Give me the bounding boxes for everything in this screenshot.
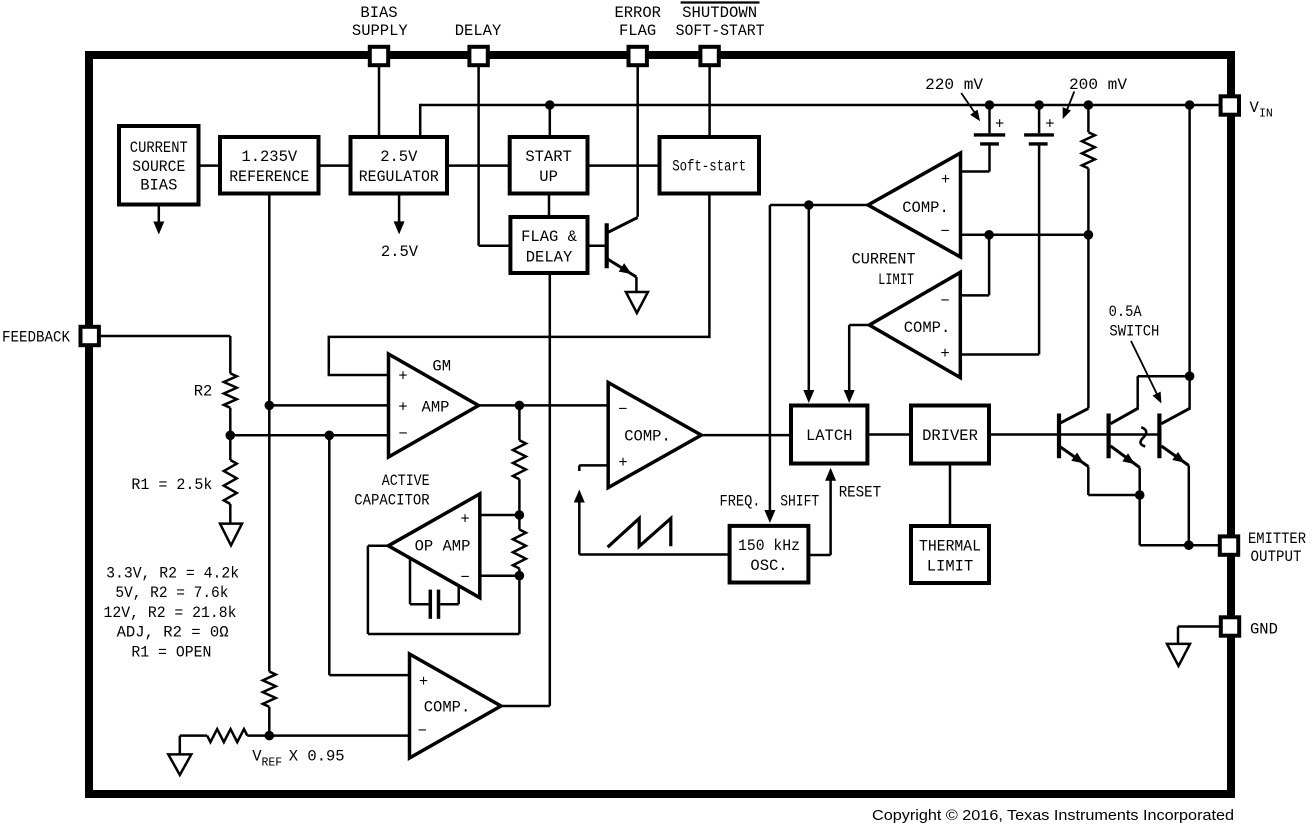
svg-text:DRIVER: DRIVER: [922, 427, 978, 445]
svg-text:SUPPLY: SUPPLY: [352, 22, 409, 40]
svg-text:−: −: [398, 425, 407, 443]
svg-text:FREQ.: FREQ.: [720, 493, 761, 511]
svg-text:COMP.: COMP.: [424, 699, 471, 717]
svg-text:R1 = 2.5k: R1 = 2.5k: [131, 476, 212, 494]
svg-text:FLAG &: FLAG &: [521, 228, 577, 246]
svg-text:−: −: [940, 292, 949, 310]
svg-text:CURRENT: CURRENT: [130, 139, 188, 157]
svg-text:RESET: RESET: [839, 484, 882, 502]
svg-text:OSC.: OSC.: [750, 557, 787, 575]
svg-text:LATCH: LATCH: [806, 427, 853, 445]
svg-text:200 mV: 200 mV: [1069, 76, 1128, 94]
svg-text:0.5A: 0.5A: [1109, 303, 1143, 321]
svg-text:ADJ, R2 = 0Ω: ADJ, R2 = 0Ω: [117, 624, 229, 642]
svg-text:COMP.: COMP.: [902, 199, 949, 217]
svg-text:DELAY: DELAY: [526, 249, 573, 267]
svg-text:220 mV: 220 mV: [925, 76, 984, 94]
svg-text:+: +: [398, 368, 407, 386]
svg-text:1.235V: 1.235V: [241, 148, 298, 166]
svg-text:+: +: [460, 511, 469, 529]
svg-text:COMP.: COMP.: [904, 319, 951, 337]
svg-text:150 kHz: 150 kHz: [738, 537, 800, 555]
svg-text:Soft-start: Soft-start: [672, 158, 746, 176]
svg-text:+: +: [618, 454, 627, 472]
svg-text:GND: GND: [1250, 621, 1278, 639]
svg-text:+: +: [398, 398, 407, 416]
svg-text:UP: UP: [539, 168, 558, 186]
svg-text:ACTIVE: ACTIVE: [382, 472, 430, 490]
svg-text:THERMAL: THERMAL: [919, 538, 981, 556]
svg-text:Copyright © 2016, Texas Instru: Copyright © 2016, Texas Instruments Inco…: [872, 807, 1234, 824]
svg-text:+: +: [1045, 115, 1054, 133]
svg-text:X 0.95: X 0.95: [289, 748, 345, 766]
svg-text:SWITCH: SWITCH: [1109, 323, 1159, 341]
svg-text:+: +: [941, 171, 950, 189]
svg-text:2.5V: 2.5V: [381, 243, 419, 261]
svg-text:−: −: [940, 222, 949, 240]
svg-text:REFERENCE: REFERENCE: [229, 168, 309, 186]
svg-text:LIMIT: LIMIT: [878, 271, 914, 289]
svg-text:REF: REF: [262, 757, 283, 770]
svg-text:IN: IN: [1259, 108, 1273, 121]
svg-text:5V, R2 = 7.6k: 5V, R2 = 7.6k: [115, 584, 228, 602]
svg-text:SHIFT: SHIFT: [780, 493, 819, 511]
svg-text:ERROR: ERROR: [614, 4, 661, 22]
svg-text:START: START: [525, 148, 572, 166]
svg-text:OUTPUT: OUTPUT: [1251, 548, 1302, 566]
svg-text:SOURCE: SOURCE: [132, 158, 185, 176]
svg-text:−: −: [418, 722, 427, 740]
svg-text:+: +: [995, 115, 1004, 133]
svg-text:2.5V: 2.5V: [380, 148, 418, 166]
svg-text:R1 = OPEN: R1 = OPEN: [131, 643, 211, 661]
svg-text:AMP: AMP: [422, 399, 450, 417]
svg-text:SHUTDOWN: SHUTDOWN: [682, 4, 757, 22]
svg-text:SOFT-START: SOFT-START: [676, 22, 765, 40]
svg-text:CURRENT: CURRENT: [852, 251, 916, 269]
svg-text:−: −: [460, 569, 469, 587]
svg-text:GM: GM: [432, 357, 451, 375]
svg-text:COMP.: COMP.: [624, 428, 671, 446]
svg-text:−: −: [618, 401, 627, 419]
svg-text:+: +: [419, 673, 428, 691]
svg-text:BIAS: BIAS: [360, 4, 397, 22]
svg-text:3.3V, R2 = 4.2k: 3.3V, R2 = 4.2k: [106, 565, 239, 583]
svg-text:+: +: [940, 345, 949, 363]
svg-text:FLAG: FLAG: [619, 22, 656, 40]
svg-text:V: V: [1250, 99, 1260, 117]
svg-text:BIAS: BIAS: [140, 177, 177, 195]
svg-text:12V, R2 = 21.8k: 12V, R2 = 21.8k: [104, 604, 237, 622]
svg-text:REGULATOR: REGULATOR: [359, 168, 439, 186]
svg-text:DELAY: DELAY: [455, 22, 502, 40]
svg-text:OP AMP: OP AMP: [415, 538, 471, 556]
svg-text:R2: R2: [194, 383, 213, 401]
svg-text:LIMIT: LIMIT: [927, 558, 974, 576]
svg-text:EMITTER: EMITTER: [1248, 530, 1306, 548]
svg-text:CAPACITOR: CAPACITOR: [354, 492, 430, 510]
svg-text:FEEDBACK: FEEDBACK: [2, 329, 71, 347]
